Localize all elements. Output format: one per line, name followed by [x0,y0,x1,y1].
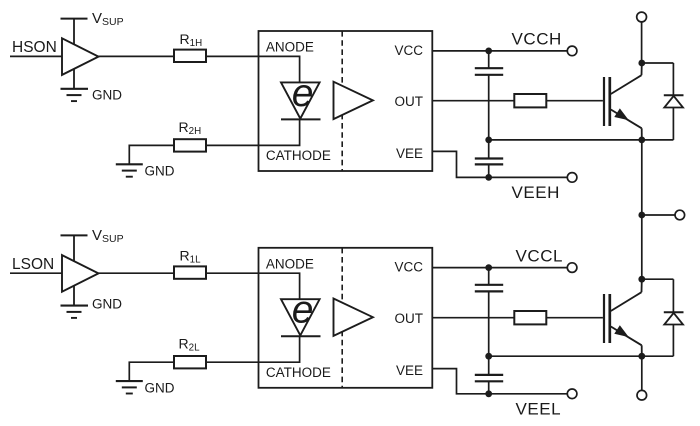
wire buffer to R1L [99,272,175,274]
terminal VEEH [567,173,577,183]
optocoupler U2H body [259,31,433,171]
svg-text:R2L: R2L [179,336,201,354]
svg-text:VCCH: VCCH [512,30,562,49]
wire C1H to emitter node [488,75,490,140]
svg-text:ANODE: ANODE [266,256,314,271]
svg-text:OUT: OUT [395,311,424,326]
power VSUP (L side) [61,235,88,261]
wire R2H to CATHODE [206,144,259,146]
diode D2H (freewheel) [664,95,684,107]
wire collector to diode D2H [642,62,674,64]
svg-text:GND: GND [145,164,175,179]
wire VEE node to VEEL terminal [489,393,568,395]
IGBT QL [604,279,642,356]
terminal emitter bottom [637,390,647,400]
svg-text:GND: GND [92,88,122,103]
svg-text:OUT: OUT [395,94,424,109]
svg-text:e: e [292,72,314,115]
wire LSON input [10,272,62,274]
capacitor C1L [475,285,503,292]
svg-text:LSON: LSON [12,256,54,273]
wire diode D2L branch [672,279,674,356]
ground (R2L) [116,381,143,393]
resistor R1H [174,50,206,62]
LED D1L [281,299,321,336]
junction collector node QH [638,60,645,67]
wire OUT to gate resistor R3L [432,317,514,319]
wire R3H to IGBT gate [546,100,603,102]
wire emitter row [489,139,674,141]
junction emitter node QL [638,353,645,360]
svg-text:CATHODE: CATHODE [266,365,331,380]
svg-text:VEE: VEE [396,363,423,378]
wire VCC node to C1H [488,51,490,68]
wire C2H to VEE node [488,164,490,177]
resistor R3L (gate) [514,311,546,324]
wire emitter node to C2L [488,356,490,375]
buffer driver U1H [62,38,99,75]
wire C1L to emitter node [488,291,490,356]
svg-text:VEEL: VEEL [516,399,562,418]
isolation barrier (U2H) [341,31,343,171]
svg-text:VSUP: VSUP [92,227,124,245]
wire diode D2H branch [672,63,674,140]
wire top terminal to collector node [641,22,643,63]
diode D2L (freewheel) [664,312,684,324]
wire emitter row [489,355,674,357]
svg-text:R2H: R2H [179,119,202,137]
wire R3L to IGBT gate [546,317,603,319]
junction VCC/C1L node [485,264,492,271]
ground (R2H) [116,164,143,176]
svg-text:HSON: HSON [12,39,57,56]
svg-text:GND: GND [145,380,175,395]
junction collector node QL [638,276,645,283]
IGBT QH [604,63,642,140]
wire anode internal (U2H) [259,56,300,83]
junction VEE node [485,390,492,397]
wire anode internal (U2L) [259,273,300,300]
resistor R2H [174,139,206,151]
amplifier (U2H) [334,82,373,119]
ground (buffer U1L) [61,285,89,318]
svg-text:VSUP: VSUP [92,10,124,28]
wire VCC to VCCL terminal [432,267,567,269]
wire collector to diode D2L [642,278,674,280]
wire VEE node to VEEH terminal [489,176,568,178]
svg-text:e: e [292,289,314,332]
ground (buffer U1H) [61,69,89,102]
junction VEE node [485,174,492,181]
wire cathode internal (U2H) [259,119,300,145]
wire HSON input [10,55,62,57]
junction emitter node QH [638,137,645,144]
buffer driver U1L [62,255,99,292]
terminal collector top [637,12,647,22]
wire OUT to gate resistor R3H [432,100,514,102]
optocoupler U2L body [259,248,433,388]
wire R1L to ANODE [206,272,259,274]
terminal VCCL [567,263,577,273]
svg-text:CATHODE: CATHODE [266,148,331,163]
junction emitter row / C1L [485,353,492,360]
junction phase node [638,212,645,219]
wire R1H to ANODE [206,55,259,57]
wire R2L to CATHODE [206,361,259,363]
power VSUP (H side) [61,19,88,45]
isolation barrier (U2L) [341,248,343,388]
capacitor C1H [475,68,503,75]
wire VEE pin jog [432,369,488,394]
svg-text:VEEH: VEEH [512,183,561,202]
svg-text:GND: GND [92,297,122,312]
svg-text:VCC: VCC [394,43,423,58]
svg-text:ANODE: ANODE [266,40,314,55]
svg-text:VCC: VCC [394,260,423,275]
terminal phase [675,210,685,220]
LED D1H [281,82,321,119]
wire VCC to VCCH terminal [432,50,567,52]
svg-text:VEE: VEE [396,146,423,161]
resistor R1L [174,266,206,278]
wire phase rail [641,140,643,279]
wire C2L to VEE node [488,381,490,394]
junction VCC/C1H node [485,48,492,55]
resistor R3H (gate) [514,94,546,107]
wire emitter node to C2H [488,140,490,159]
wire R2H to ground [129,145,174,164]
terminal VCCH [567,46,577,56]
wire VEE pin jog [432,151,488,177]
wire R2L to ground [129,362,174,381]
wire emitter to bottom terminal [641,356,643,390]
svg-text:VCCL: VCCL [516,246,564,265]
svg-text:R1H: R1H [180,31,203,49]
wire buffer to R1H [99,55,175,57]
amplifier (U2L) [334,299,373,336]
capacitor C2L [475,375,503,381]
resistor R2L [174,356,206,368]
wire phase stub [642,214,675,216]
capacitor C2H [475,159,503,165]
wire cathode internal (U2L) [259,336,300,362]
junction emitter row / C1H [485,137,492,144]
terminal VEEL [567,389,577,399]
svg-text:R1L: R1L [180,248,202,266]
wire VCC node to C1L [488,268,490,285]
